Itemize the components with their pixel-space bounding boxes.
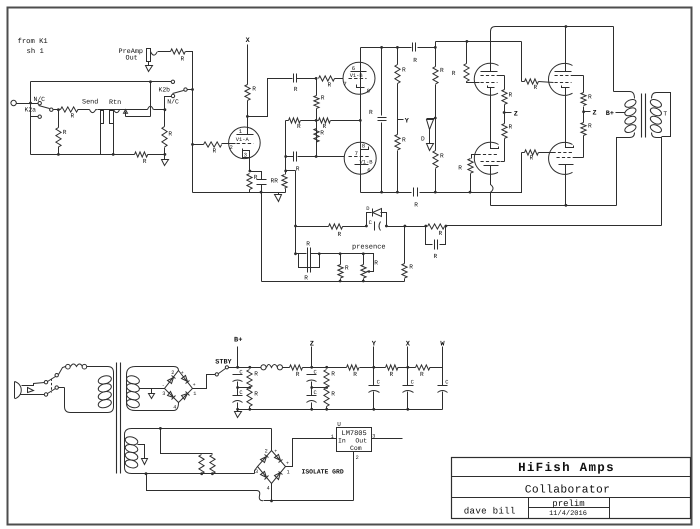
wire left column x30.5 <box>30 82 32 155</box>
junction z gnd row <box>310 408 313 411</box>
wire AC hot pin <box>22 385 27 387</box>
svg-text:R: R <box>390 371 394 378</box>
tube V1-A grid dashes <box>237 143 254 145</box>
tube power2 screen dashes <box>481 161 501 163</box>
tube V1-B upper grid dashes <box>349 78 367 80</box>
capacitor C b+ upper <box>233 375 243 382</box>
switch arm K2b <box>173 91 184 94</box>
wire fb row left of loop <box>343 226 367 228</box>
wire BR1 plus out <box>193 375 216 389</box>
svg-text:V1-B: V1-B <box>350 73 364 79</box>
switch arm mains 2 <box>48 389 56 394</box>
tube power4 cathode <box>566 141 574 148</box>
junction presence r1 <box>339 252 342 255</box>
wire row41 bus <box>436 41 522 43</box>
resistor R v1a cathode <box>247 174 252 190</box>
resistor R fb series <box>329 224 343 229</box>
diode BR1 d3 <box>168 376 176 384</box>
svg-text:R: R <box>353 371 357 378</box>
svg-text:R: R <box>369 109 373 116</box>
wire cathode1 down <box>490 88 492 149</box>
wire gnd stub ps <box>237 410 239 412</box>
svg-text:R: R <box>434 253 438 260</box>
svg-text:Z: Z <box>514 110 518 118</box>
tube V1-B lower grid dashes <box>349 156 370 158</box>
bridge BR1 outline <box>165 371 193 403</box>
ground arrow preamp jack <box>146 66 153 72</box>
svg-text:1: 1 <box>287 470 290 476</box>
junction col381 row192 <box>380 191 383 194</box>
capacitor C fb series <box>375 222 381 231</box>
tube power3 control dashes <box>555 82 572 84</box>
wire row192 left segment <box>193 192 286 194</box>
junction b+ gnd row <box>236 408 239 411</box>
wire b+ cap to gnd row <box>237 403 239 410</box>
wire send line to K2b <box>98 109 148 111</box>
svg-text:8: 8 <box>367 87 370 94</box>
wire presence r1 top <box>340 254 342 265</box>
junction bleeder gnd <box>248 408 251 411</box>
diode BR2 d4 <box>261 472 269 480</box>
jack Rtn tip hook <box>114 110 120 113</box>
inductor L choke bumps <box>267 365 278 368</box>
ground arrow diode <box>427 144 434 151</box>
capacitor C presence <box>308 248 311 273</box>
svg-text:R: R <box>304 275 308 282</box>
wire PreAmp sleeve stub <box>148 62 150 66</box>
transformer T core <box>642 94 646 138</box>
svg-text:B+: B+ <box>606 110 614 118</box>
wire col397 top <box>397 48 399 65</box>
wire cap to node <box>297 78 317 80</box>
junction row47 cap col <box>380 46 383 49</box>
tube power2 cathode <box>491 142 499 149</box>
ground arrow heater ct <box>142 459 148 465</box>
svg-text:N/C: N/C <box>167 98 179 105</box>
wire heater to br2 top <box>271 429 273 451</box>
wire grid2 to row192 <box>470 174 472 193</box>
wire divider col mid <box>316 109 318 121</box>
arrow presence pot wiper <box>366 270 370 273</box>
resistor R drop z <box>290 365 303 370</box>
wire top row y81.8 <box>31 81 172 83</box>
wire plate to coupling riser <box>248 79 293 117</box>
wire cath res to row <box>249 190 251 193</box>
arrow Rtn wiper <box>124 110 128 117</box>
svg-text:Out: Out <box>355 438 367 445</box>
junction N/C column <box>164 108 167 111</box>
resistor R row120 b <box>319 118 331 123</box>
wire col583 bottom <box>583 136 585 158</box>
svg-text:from K1: from K1 <box>18 37 48 46</box>
contact K2a lower <box>38 115 41 118</box>
transformer T secondary loop3 <box>649 115 663 126</box>
tube power1 control dashes <box>481 82 498 84</box>
svg-text:D: D <box>366 206 369 212</box>
switch arm K2a <box>39 106 50 109</box>
junction row120 mid <box>315 119 318 122</box>
wire STBY to B+ <box>229 367 238 369</box>
tube power1 screen dashes <box>481 75 498 77</box>
wire rtn sleeve drop <box>113 124 115 155</box>
wire col435 mid <box>435 85 437 119</box>
wire X flag <box>407 347 409 368</box>
svg-text:R: R <box>63 129 67 136</box>
wire N/C col to resistor <box>164 110 166 127</box>
wire primary top <box>614 92 635 99</box>
wire plate2 drop with hop <box>491 166 494 206</box>
wire secondary bottom <box>652 133 662 226</box>
svg-text:C: C <box>445 379 448 385</box>
fuse F1 arc <box>71 364 83 367</box>
wire secondary top <box>652 93 671 137</box>
resistor R bleeder z b <box>324 388 329 407</box>
wire diode to gnd <box>429 130 431 144</box>
junction row205 tube4 <box>565 204 568 207</box>
titleblock v divider 2 <box>609 498 611 519</box>
junction bus tube3 <box>565 25 568 28</box>
resistor R col435 lower <box>433 151 438 169</box>
wire col397 bottom <box>397 151 399 193</box>
contact mains sw pole2 right <box>55 386 58 389</box>
svg-text:+: + <box>286 461 289 467</box>
svg-text:4: 4 <box>173 405 176 411</box>
capacitor C b+ lower <box>233 396 243 403</box>
junction Z right <box>582 110 585 113</box>
svg-text:R: R <box>420 371 424 378</box>
wire y cap top <box>373 368 375 386</box>
junction top row x150.5 <box>149 80 152 83</box>
tube V1-B upper cathode <box>357 85 365 88</box>
svg-text:R: R <box>331 371 335 378</box>
resistor R send series <box>61 107 79 112</box>
resistor R v1a plate load <box>245 85 250 101</box>
wire presence pot bottom <box>363 279 365 282</box>
contact K2b top <box>171 80 174 83</box>
svg-text:R: R <box>588 94 592 101</box>
junction heater bal a <box>200 472 203 475</box>
resistor R bleeder b+ a <box>247 370 252 388</box>
svg-text:2: 2 <box>265 449 268 455</box>
wire row120 right <box>331 120 361 122</box>
capacitor C z upper <box>307 375 317 382</box>
svg-text:presence: presence <box>352 244 386 252</box>
junction presence cap in <box>294 252 297 255</box>
svg-text:R: R <box>402 67 406 74</box>
wire R to send jack <box>78 109 90 111</box>
resistor R col397 upper <box>395 65 400 84</box>
transformer T primary loop4 <box>624 123 638 134</box>
diode BR1 d2 <box>182 392 190 400</box>
junction z caps mid <box>310 386 313 389</box>
wire grid1 to tube <box>467 82 480 83</box>
transformer PT heater loop2 <box>124 443 138 454</box>
wire grid1 res col <box>466 42 468 64</box>
tube power4 plate <box>559 164 574 166</box>
svg-text:1: 1 <box>193 391 196 397</box>
loop diode branch <box>367 213 387 227</box>
wire choke to R <box>283 367 290 369</box>
wire pot wiper loop <box>364 254 374 272</box>
junction presence row in <box>318 252 321 255</box>
resistor R heater bal b <box>210 455 215 474</box>
wire gnd stub row192 <box>278 193 280 195</box>
loop presence resistor <box>299 254 320 268</box>
wire V1-A cathode lead <box>249 158 251 172</box>
wire feedback row right <box>447 225 662 227</box>
jack J PreAmp Out body <box>147 49 151 62</box>
resistor R col583 lower <box>581 123 586 136</box>
junction row41 grid1 <box>466 40 469 43</box>
junction heater top tap <box>159 427 162 430</box>
svg-text:HiFish Amps: HiFish Amps <box>518 461 615 475</box>
tube power 1 envelope <box>474 63 498 95</box>
svg-text:+: + <box>274 449 277 455</box>
transformer T secondary loop4 <box>649 123 663 134</box>
svg-text:R: R <box>439 230 443 237</box>
wire K2a lower stub <box>31 116 39 118</box>
wire K2b N/C drop <box>165 97 172 110</box>
wire screen2 to column <box>501 161 505 163</box>
wire divider col upper <box>316 79 318 96</box>
junction v1a plate <box>246 115 249 118</box>
resistor R ground ref <box>135 152 148 157</box>
transformer T secondary loop1 <box>649 98 663 109</box>
resistor R row120 a <box>289 118 301 123</box>
junction fb loop left <box>424 225 427 228</box>
wire grid4 stub <box>522 152 525 154</box>
diode D bias triangle <box>427 120 434 130</box>
junction col397 row192 <box>396 191 399 194</box>
transformer PT heater loop3 <box>124 451 138 462</box>
tube V1-A cathode box <box>243 149 250 158</box>
wire presence row <box>320 253 364 255</box>
junction col435 row192 <box>434 191 437 194</box>
wire col435 bottom <box>435 119 437 151</box>
junction rtn sleeve <box>112 153 115 156</box>
junction fb diode loop right <box>385 225 388 228</box>
wire send sleeve drop <box>100 124 102 155</box>
wire R to Z rail <box>303 367 312 369</box>
wire col381 upper <box>381 48 383 116</box>
junction B+ rail <box>236 366 239 369</box>
svg-text:R: R <box>509 124 513 131</box>
resistor R grid4 <box>525 150 539 155</box>
diode BR2 d1 <box>275 455 283 463</box>
junction grid2 row192 <box>469 191 472 194</box>
capacitor row192 <box>414 188 418 197</box>
titleblock row2 divider <box>452 497 691 499</box>
resistor R drop y <box>347 365 359 370</box>
svg-text:R: R <box>374 260 378 267</box>
wire fb row left end <box>296 226 329 228</box>
capacitor C w <box>438 386 448 393</box>
tube V1-B lower cathode <box>361 147 369 150</box>
svg-text:R: R <box>254 391 258 398</box>
junction heater bal b <box>211 472 214 475</box>
wire reg out <box>372 438 403 440</box>
resistor R col583 upper <box>581 93 586 106</box>
contact K2b N/C <box>171 94 174 97</box>
contact K2a pole <box>50 108 53 111</box>
resistor R heater bal a <box>199 455 204 474</box>
wire grid3 stub <box>522 81 525 83</box>
resistor R divider upper <box>314 96 319 109</box>
resistor R feedback loop <box>428 224 445 229</box>
svg-text:C: C <box>369 220 372 226</box>
wire X flag drop <box>247 45 249 85</box>
switch arm mains 1 <box>48 377 56 382</box>
wire AC neutral pin <box>21 394 45 396</box>
wire R to corner <box>186 52 193 90</box>
tube V1-A plate <box>237 117 254 135</box>
junction z bleeder gnd <box>325 408 328 411</box>
svg-text:B+: B+ <box>234 337 242 345</box>
diode D fb triangle <box>373 209 382 217</box>
resistor R fb shunt <box>402 264 407 279</box>
diode BR2 d2 <box>275 472 283 480</box>
wire hv center tap <box>140 388 165 390</box>
contact mains sw pole2 left <box>44 393 47 396</box>
wire sw1 to fuse <box>59 367 66 375</box>
svg-text:R: R <box>458 165 462 172</box>
wire bleeder mid link <box>238 387 250 389</box>
svg-text:Rtn: Rtn <box>109 99 121 107</box>
wire control2 corner <box>472 155 478 159</box>
wire x cap bottom <box>407 392 409 410</box>
svg-text:R: R <box>143 158 147 165</box>
svg-text:C: C <box>411 379 414 385</box>
svg-text:R: R <box>213 148 217 155</box>
svg-text:R: R <box>409 264 413 271</box>
capacitor C y <box>369 386 380 393</box>
resistor R grid1 <box>464 64 469 82</box>
wire R to Y rail <box>360 367 374 369</box>
wire B+ to primary CT <box>616 112 626 114</box>
wire cap row left <box>286 156 294 158</box>
wire primary bottom <box>617 133 635 206</box>
svg-text:R: R <box>328 82 332 89</box>
svg-text:R: R <box>181 56 185 63</box>
resistor R col285 bias <box>282 175 287 189</box>
svg-text:K2b: K2b <box>159 87 171 94</box>
wire row192 right a <box>361 192 412 194</box>
wire divider col lower <box>316 121 318 157</box>
junction row79 divider <box>315 77 318 80</box>
diode D fb bar <box>372 209 374 217</box>
transformer T primary loop3 <box>624 115 638 126</box>
wire cap row right <box>298 156 345 158</box>
wire z caps mid <box>311 382 313 396</box>
jack PreAmp tip hook <box>151 52 158 56</box>
wire row47 left <box>361 47 412 49</box>
junction bridge2 minus <box>270 500 273 503</box>
wire y cap bottom <box>373 392 375 410</box>
wire br2 left vertex <box>255 467 258 474</box>
wire cathode3 down <box>565 88 567 148</box>
capacitor C fb loop <box>435 240 438 250</box>
svg-text:R: R <box>321 95 325 102</box>
tube power 4 envelope <box>549 142 573 174</box>
titleblock sub divider <box>529 507 610 509</box>
svg-text:V1-A: V1-A <box>236 137 250 143</box>
transformer T secondary loop2 <box>649 106 663 117</box>
svg-text:Send: Send <box>82 99 98 107</box>
tube V1-B lower plate <box>355 164 369 166</box>
diode BR2 d3 <box>261 455 269 463</box>
transformer PT core <box>117 363 121 474</box>
tube power4 control dashes <box>553 152 573 154</box>
junction diode tap <box>434 117 437 120</box>
resistor R col435 upper <box>433 67 438 85</box>
winding primary loop outline <box>65 367 114 413</box>
wire col583 top <box>583 76 585 93</box>
wire bleeder top <box>238 367 250 369</box>
svg-text:RR: RR <box>271 178 279 185</box>
diode BR1 d1 <box>182 376 190 384</box>
wire col285 upper <box>285 121 287 157</box>
svg-text:sh 1: sh 1 <box>27 47 44 56</box>
svg-text:R: R <box>440 67 444 74</box>
transformer T primary loop2 <box>624 106 638 117</box>
junction bleeder top <box>248 366 251 369</box>
wire bus x192.5 down <box>192 90 194 193</box>
svg-text:Collaborator: Collaborator <box>525 483 611 496</box>
junction ground node <box>164 153 167 156</box>
svg-text:2: 2 <box>230 144 233 151</box>
wire fb row to diode loop <box>387 226 405 228</box>
svg-text:R: R <box>296 165 300 172</box>
svg-text:Out: Out <box>126 55 138 63</box>
junction row47 y col <box>396 46 399 49</box>
resistor R drop x <box>386 365 398 370</box>
svg-text:R: R <box>402 137 406 144</box>
svg-text:R: R <box>294 86 298 93</box>
junction v1a cathode <box>249 170 252 173</box>
wire w cap bottom <box>442 392 444 410</box>
capacitor C v1a cathode <box>257 180 267 185</box>
tube V1-B upper envelope <box>343 62 375 94</box>
ground arrow hv ct <box>149 394 155 399</box>
capacitor row47 <box>413 43 416 52</box>
wire R to X rail <box>398 367 408 369</box>
capacitor coupling 1 <box>294 74 297 83</box>
junction heater return <box>145 472 148 475</box>
junction presence bot r1 <box>339 280 342 283</box>
wire heater return drop <box>147 474 257 491</box>
svg-text:R: R <box>306 240 310 247</box>
wire Y tick <box>398 119 404 121</box>
wire resistor to ground <box>148 154 165 156</box>
svg-text:R: R <box>320 130 324 137</box>
contact mains sw pole1 left <box>44 381 47 384</box>
resistor R k2a leak <box>56 128 61 147</box>
junction Z rail <box>310 366 313 369</box>
svg-text:R: R <box>588 123 592 130</box>
svg-text:3: 3 <box>162 391 165 397</box>
wire col285 mid <box>285 157 287 171</box>
svg-text:+: + <box>181 370 184 376</box>
wire load to plate node <box>247 101 249 117</box>
wire plate4 drop <box>565 165 567 206</box>
svg-text:C: C <box>239 390 242 396</box>
svg-text:R: R <box>254 371 258 378</box>
resistor R v1a grid <box>204 142 222 147</box>
resistor R grid2 <box>468 159 473 174</box>
junction row120 tube col <box>359 119 362 122</box>
wire gnd stub <box>164 155 166 160</box>
svg-text:Com: Com <box>350 445 362 452</box>
